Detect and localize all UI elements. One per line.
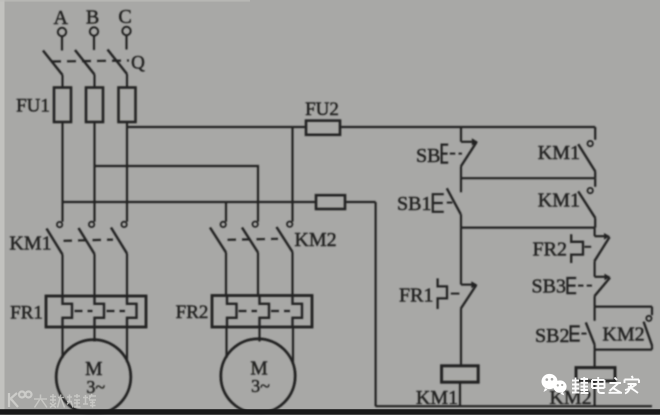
svg-text:3~: 3~ <box>251 376 270 396</box>
button SB1 dash <box>447 202 453 204</box>
wire KM1 pole3 to FR1 <box>126 254 128 297</box>
wire FR2 to motor M2 leads <box>225 327 227 359</box>
wire KM1 aux2 top <box>594 178 596 187</box>
KM1 aux1 blade <box>578 144 595 171</box>
button SB2 dash <box>581 333 586 335</box>
wire FU1b to KM1 pole2 <box>93 122 95 222</box>
wire line y178 <box>461 177 595 179</box>
svg-text:C: C <box>118 6 131 28</box>
motor M2 circle <box>221 339 295 413</box>
FR1 NC heater <box>438 278 447 309</box>
watermark left text da-shu-kua-jing <box>34 394 96 408</box>
fuse FU2 lower <box>316 195 345 209</box>
contactor KM2 pole3 circle <box>287 222 292 227</box>
svg-text:SB3: SB3 <box>532 275 566 297</box>
wire FU1c to KM1 pole3 <box>126 122 128 222</box>
wire rail C-phase to FU2 <box>127 126 306 128</box>
svg-text:KM1: KM1 <box>538 190 580 212</box>
svg-text:FR1: FR1 <box>399 285 433 307</box>
wire FU2 to control top rail <box>340 126 595 128</box>
contactor KM1 pole2 circle <box>89 222 94 227</box>
FR2 heater element 3 <box>293 297 303 327</box>
button SB arrow <box>472 138 478 145</box>
fuse FU1 phase C <box>119 88 136 123</box>
wire fuse2 to left control rail <box>345 201 376 203</box>
contactor KM1 pole1 blade <box>47 229 63 255</box>
wire KM1 pole2 to FR1 <box>93 254 95 296</box>
coil KM2 <box>576 368 615 381</box>
fuse FU2 <box>306 121 340 135</box>
svg-text:KM1: KM1 <box>538 142 580 164</box>
svg-text:KM2: KM2 <box>294 229 336 251</box>
wire FR1 to motor M1 leads <box>61 327 63 359</box>
contactor KM2 linkage dashed <box>228 239 279 240</box>
watermark left logo K-oo <box>9 392 32 408</box>
svg-text:FR2: FR2 <box>176 302 209 323</box>
button SB actuator E <box>442 145 449 163</box>
FR2 NC contact hook <box>595 235 605 237</box>
bottom black bar <box>0 409 660 414</box>
wire FR2 to SB3 <box>593 261 595 277</box>
wire KM2 pole3 tap <box>291 127 293 222</box>
FR2 NC heater <box>571 234 583 263</box>
svg-text:B: B <box>86 7 99 29</box>
wire KM2 coil to bottom rail <box>593 381 595 406</box>
KM2 aux blade <box>644 322 653 346</box>
contactor KM2 pole3 blade <box>277 227 293 252</box>
thermal relay FR2 box <box>212 296 312 328</box>
button SB3 blade <box>594 278 610 297</box>
contactor KM2 pole1 blade <box>210 228 226 253</box>
wire KM1 aux1 to line178 <box>594 172 596 179</box>
wire Q pole3 to FU1c <box>126 74 128 88</box>
wire KM2 pole3 to FR2 <box>291 252 293 296</box>
contactor KM1 pole1 circle <box>57 222 62 227</box>
KM1 aux1 circle <box>588 141 593 146</box>
contactor KM1 pole3 blade <box>111 228 127 254</box>
svg-text:FU2: FU2 <box>305 99 339 120</box>
svg-text:SB1: SB1 <box>397 193 431 215</box>
motor M1 circle <box>56 340 131 415</box>
wire to KM2 coil <box>593 350 595 368</box>
contactor KM1 pole3 circle <box>121 222 126 227</box>
contactor KM2 pole2 circle <box>253 222 258 227</box>
FR2 NC contact blade <box>594 237 609 261</box>
contactor KM2 pole2 blade <box>242 228 258 253</box>
wire KM2 pole1 tap <box>225 202 227 222</box>
wire B terminal to switch Q <box>93 36 95 51</box>
FR1 NC contact arrow <box>471 281 477 288</box>
button SB1 actuator E <box>433 194 444 212</box>
left light edge strip <box>0 0 5 415</box>
wire C terminal to switch Q <box>125 35 127 50</box>
svg-text:A: A <box>53 7 68 29</box>
contactor KM2 pole1 circle <box>221 222 226 227</box>
FR1 heater element 1 <box>63 297 73 327</box>
button SB2 blade <box>586 322 595 344</box>
button SB3 dashes <box>578 285 592 287</box>
wire SB2 bottom <box>593 345 595 350</box>
FR2 heater element 2 <box>260 297 270 327</box>
button SB blade <box>461 142 477 166</box>
svg-text:KM2: KM2 <box>602 324 644 346</box>
wire control branch down from top rail <box>460 127 462 142</box>
watermark right text gan-dian-zhi-jia <box>572 376 639 394</box>
wire SB2 top <box>593 307 595 321</box>
FR2 NC dash <box>584 246 591 248</box>
wire control bottom rail <box>376 405 652 407</box>
FR1 linkage dashes <box>75 310 93 312</box>
svg-text:SB: SB <box>416 145 440 167</box>
svg-text:KM1: KM1 <box>9 233 51 255</box>
fuse FU1 phase B <box>86 88 103 123</box>
svg-text:FR2: FR2 <box>533 239 567 261</box>
KM1 aux2 blade <box>578 191 595 218</box>
svg-text:Q: Q <box>131 52 145 73</box>
watermark wechat bubbles <box>542 374 567 396</box>
wire Q pole1 to FU1a <box>61 75 63 88</box>
button SB3 arrow <box>604 274 610 281</box>
wire KM1 pole1 to FR1 <box>61 255 63 297</box>
wire SB3 to line306 <box>593 296 595 306</box>
FR2 NC contact arrow <box>604 233 610 240</box>
FR1 heater element 2 <box>95 297 105 327</box>
contactor KM1 pole2 blade <box>79 228 95 254</box>
FR1 NC contact hook <box>461 284 472 286</box>
terminal B circle <box>90 27 98 35</box>
button SB1 blade <box>447 188 461 214</box>
wire FR1 contact to KM1 coil <box>460 309 462 366</box>
svg-text:3~: 3~ <box>86 377 105 397</box>
terminal A circle <box>58 28 66 36</box>
fuse FU1 phase A <box>54 88 71 123</box>
wire line y349 <box>595 349 652 351</box>
KM1 aux2 circle <box>588 188 593 193</box>
wire SB1 to node 227 <box>460 214 462 227</box>
wire left control rail <box>375 202 377 406</box>
button SB2 actuator E <box>571 326 580 340</box>
FR1 NC contact blade <box>461 285 477 309</box>
wire A terminal to switch Q <box>61 36 63 51</box>
switch Q pole 3 blade <box>108 50 128 75</box>
wire FR2 contact top <box>593 228 595 237</box>
FR2 heater element 1 <box>227 297 237 327</box>
switch Q linkage dashed <box>52 61 129 62</box>
wire KM1 aux2 to node 227 <box>594 218 596 227</box>
wire rail A-phase to fuse2 <box>63 201 317 203</box>
button SB dashes <box>450 153 462 155</box>
wire node line y227 <box>461 227 595 229</box>
wire Q pole2 to FU1b <box>93 75 95 89</box>
svg-text:SB2: SB2 <box>535 325 569 347</box>
wire line y306 <box>595 306 652 308</box>
wire KM2 aux bottom <box>651 346 653 350</box>
button SB3 hook <box>595 276 605 278</box>
svg-text:FR1: FR1 <box>10 303 43 324</box>
switch Q pole 1 blade <box>43 51 63 76</box>
FR1 heater element 3 <box>127 297 137 327</box>
wire FU1a to KM1 pole1 <box>61 122 63 222</box>
terminal C circle <box>122 27 130 35</box>
wire KM1 coil to bottom rail <box>459 382 461 406</box>
button SB stop: hook <box>461 141 473 143</box>
button SB3 actuator E <box>567 278 576 293</box>
svg-text:KM1: KM1 <box>416 387 458 409</box>
FR1 NC dash <box>451 293 460 295</box>
wire KM2 aux top <box>651 307 653 316</box>
switch Q pole 2 blade <box>75 50 95 75</box>
wire top rail corner down KM1 aux1 <box>594 127 596 140</box>
wire rail B-phase <box>95 166 259 222</box>
contactor KM1 linkage dashed <box>64 240 114 241</box>
coil KM1 <box>442 366 479 382</box>
thermal relay FR1 box <box>46 296 146 327</box>
wire KM2 pole1 to FR2 <box>225 253 227 296</box>
KM2 aux circle <box>646 316 651 321</box>
top light edge strip <box>0 0 250 2</box>
svg-text:FU1: FU1 <box>16 95 50 116</box>
wire KM2 pole2 to FR2 <box>257 253 259 296</box>
wire SB to SB1 <box>460 167 462 193</box>
FR2 linkage dashes <box>239 310 258 312</box>
wire node 227 down to FR1 contact <box>460 228 462 285</box>
